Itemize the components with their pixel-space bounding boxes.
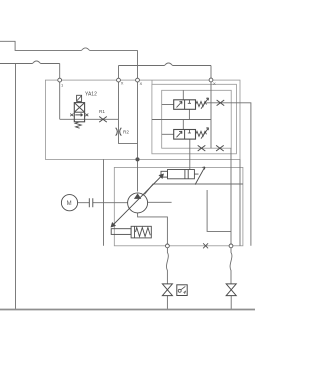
svg-text:X: X [140, 81, 143, 86]
svg-text:X: X [121, 81, 124, 86]
svg-text:M: M [67, 201, 72, 207]
svg-text:R2: R2 [123, 130, 129, 135]
svg-text:X: X [213, 81, 216, 86]
svg-text:1: 1 [61, 83, 64, 88]
svg-text:R1: R1 [99, 109, 105, 114]
svg-text:YA12: YA12 [85, 92, 97, 98]
